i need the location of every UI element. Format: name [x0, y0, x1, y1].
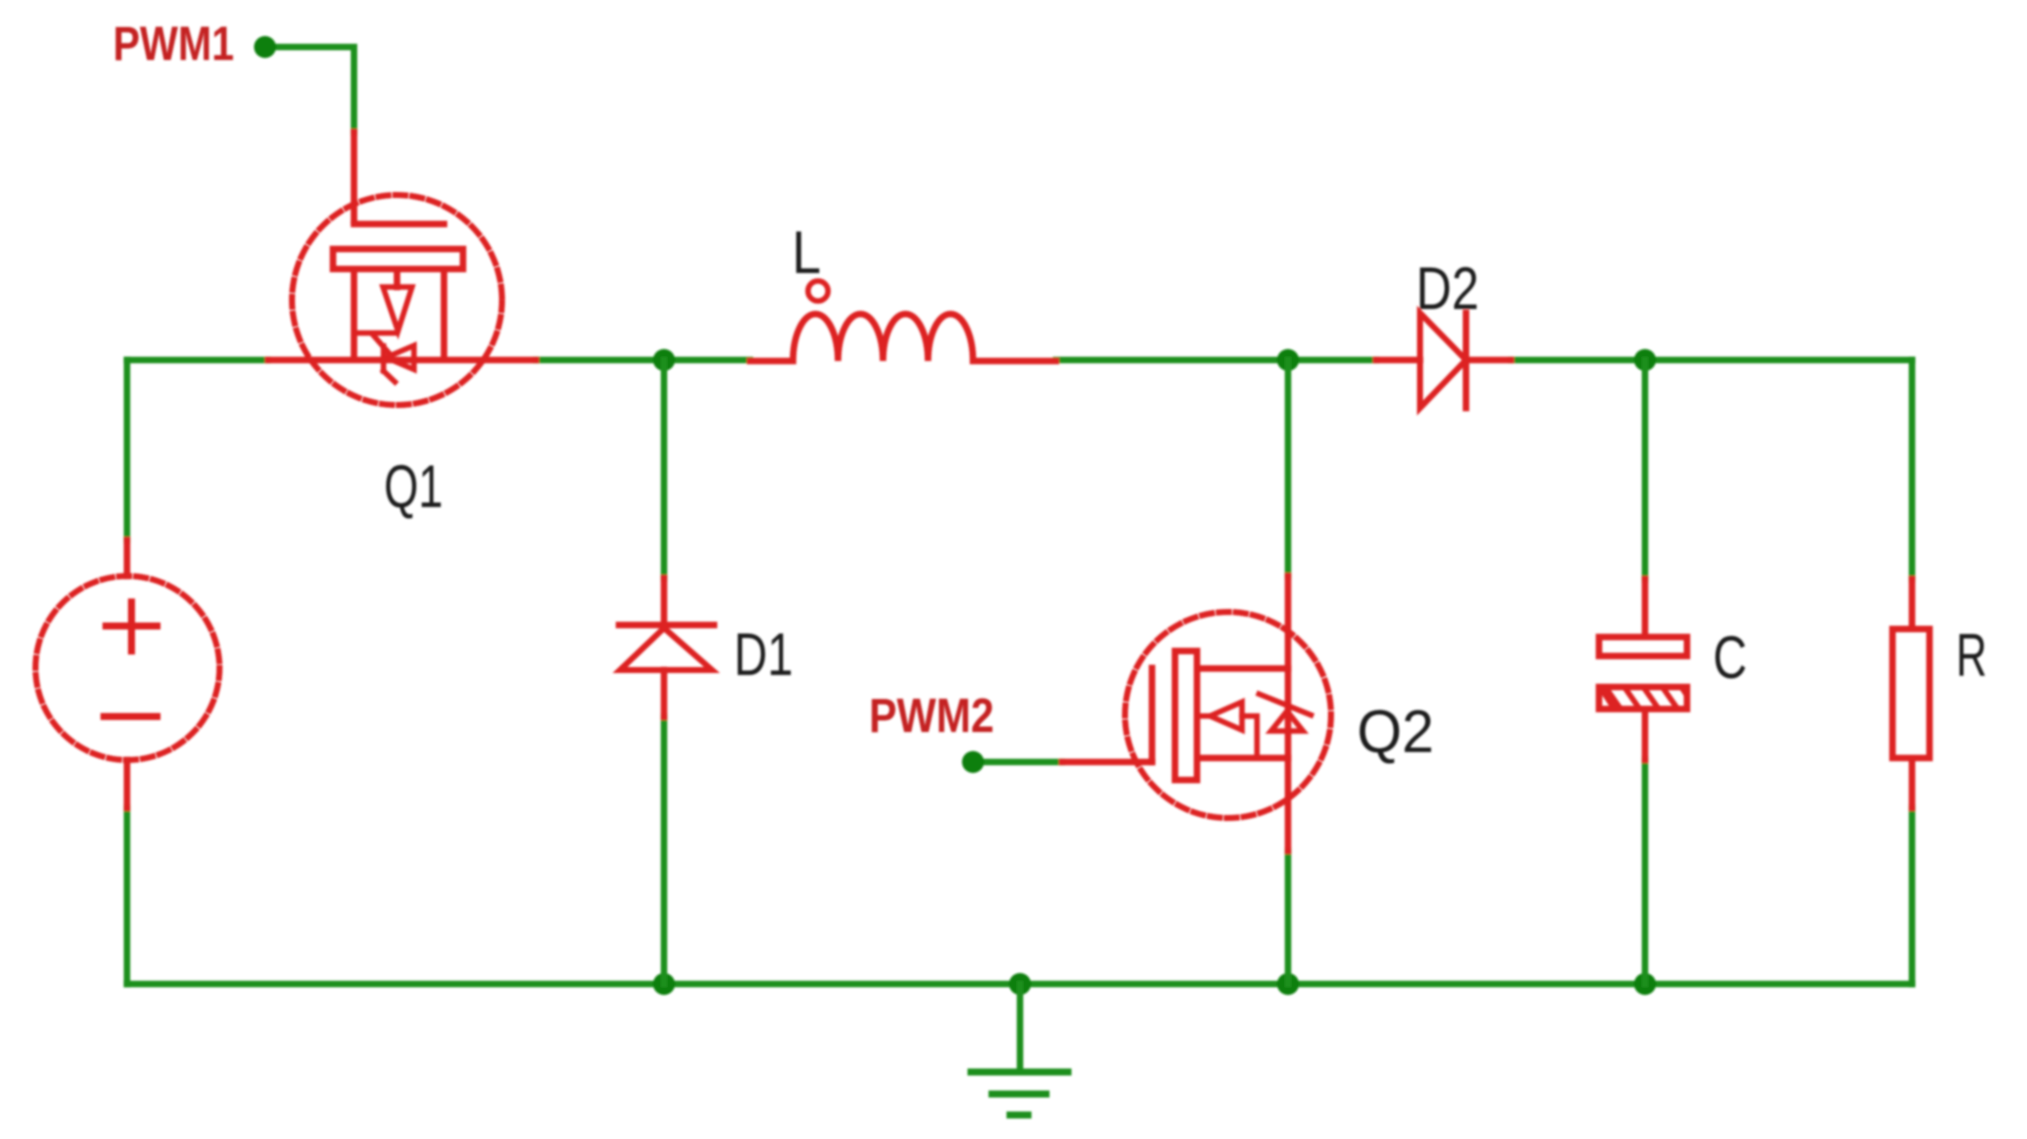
svg-text:D2: D2 — [1416, 255, 1479, 322]
node PWM2 dot — [962, 751, 984, 773]
node junction dot bottom C — [1634, 973, 1656, 995]
transistor Q1 (PMOS, rotated) — [268, 132, 536, 405]
wire: C branch upper green — [1642, 360, 1649, 579]
node PWM1 dot — [254, 36, 276, 58]
svg-text:C: C — [1713, 624, 1747, 691]
wire: C branch lower green — [1642, 760, 1649, 984]
wire: left edge upper green — [124, 360, 131, 540]
node junction dot top C — [1634, 349, 1656, 371]
node junction dot bottom Q2 — [1277, 973, 1299, 995]
diode D1 — [619, 578, 714, 717]
wire: D1 branch lower green — [661, 717, 668, 984]
wire: bottom rail green — [127, 981, 1912, 988]
ground — [971, 984, 1068, 1115]
wire: top rail green (L to D2) — [1056, 357, 1376, 364]
capacitor C — [1599, 579, 1687, 760]
wire: top rail mid green (Q1 to L) — [536, 357, 750, 364]
wire: PWM2 stub green — [973, 759, 1062, 766]
svg-text:PWM2: PWM2 — [869, 690, 994, 743]
svg-text:R: R — [1956, 622, 1987, 689]
resistor R — [1893, 579, 1930, 808]
wire: Q2 branch upper green — [1285, 360, 1292, 576]
wire: right edge lower green — [1909, 808, 1916, 984]
svg-text:Q1: Q1 — [384, 453, 443, 520]
wire: top rail right green (D2 to corner) — [1511, 357, 1912, 364]
diode D2 — [1376, 313, 1511, 408]
node junction dot ground — [1009, 973, 1031, 995]
voltage source VS1 — [36, 540, 220, 808]
node junction dot top Q2 — [1277, 349, 1299, 371]
inductor L — [750, 281, 1056, 361]
node junction dot top D1 — [653, 349, 675, 371]
wire: PWM1 stub horizontal+vertical green — [265, 47, 354, 132]
svg-text:Q2: Q2 — [1357, 698, 1434, 765]
svg-text:D1: D1 — [734, 621, 793, 688]
wire: top rail left green — [127, 357, 268, 364]
wire: left edge lower green — [124, 808, 131, 984]
wire: D1 branch upper green — [661, 360, 668, 578]
node junction dot bottom D1 — [653, 973, 675, 995]
wire: right edge upper green — [1909, 360, 1916, 579]
transistor Q2 (NMOS) — [1062, 576, 1331, 851]
svg-text:L: L — [792, 219, 821, 286]
svg-text:PWM1: PWM1 — [113, 18, 234, 71]
wire: Q2 branch lower green — [1285, 851, 1292, 984]
